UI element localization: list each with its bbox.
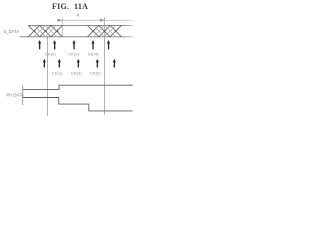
vertical marker V3 (long) [46, 37, 48, 116]
vertical marker V2 (long) [104, 17, 106, 115]
arrow CK row1 #4 [91, 40, 94, 44]
clock labels row 2 [52, 72, 101, 76]
tiny tick above dimension line [77, 14, 79, 17]
crossing point dots [34, 30, 117, 32]
svg-text:CK(0): CK(0) [45, 52, 56, 56]
clock arrows row 2 [43, 59, 116, 68]
clock arrows row 1 [38, 40, 110, 49]
svg-text:CK(2): CK(2) [68, 52, 79, 56]
arrow CK row2 #5 [113, 59, 116, 63]
arrow CK row2 #4 [96, 59, 99, 63]
arrow CK row1 #1 [38, 40, 41, 44]
arrow CK row1 #3 [72, 40, 75, 44]
arrow CK row1 #5 [107, 40, 110, 44]
dimension arrowhead left [58, 19, 63, 22]
svg-text:PH DATA: PH DATA [7, 93, 25, 98]
svg-text:CK(4): CK(4) [88, 52, 99, 56]
svg-text:FIG.11A: FIG.11A [52, 2, 88, 11]
dimension arrowhead right [100, 19, 104, 22]
eye bottom rail [20, 36, 133, 38]
arrow CK row2 #2 [58, 59, 61, 63]
arrow CK row2 #1 [43, 59, 46, 63]
svg-text:CK(1): CK(1) [52, 72, 63, 76]
left crossing group half-offset lattice [34, 25, 57, 36]
clock labels row 1 [45, 52, 99, 56]
svg-text:CK(5): CK(5) [90, 72, 101, 76]
vertical marker V1 [61, 19, 63, 37]
arrow CK row1 #2 [53, 40, 56, 44]
svg-text:S_DATA: S_DATA [4, 29, 20, 34]
waveform line1 (step up) [23, 85, 133, 89]
waveform line2 (two steps down) [23, 98, 133, 111]
right crossing group half-offset lattice [93, 25, 116, 36]
left crossing group [28, 25, 62, 36]
svg-text:CK(3): CK(3) [71, 72, 82, 76]
right crossing group [88, 25, 122, 36]
dimension line [57, 19, 133, 21]
arrow CK row2 #3 [77, 59, 80, 63]
bracket vertical at waveform start [22, 85, 24, 105]
eye top rail [28, 24, 133, 26]
